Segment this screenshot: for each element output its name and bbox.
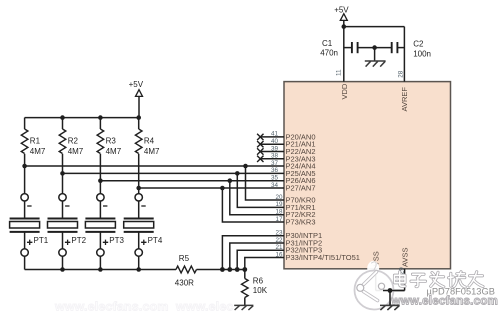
wire +5V left riser: [138, 96, 140, 117]
wire top horizontal to AVREF branch: [344, 26, 405, 28]
svg-text:22: 22: [275, 237, 283, 244]
wire R4 bottom to PT4: [138, 154, 140, 194]
svg-text:40: 40: [271, 138, 279, 145]
pin stub 38 no-connect: [260, 158, 284, 160]
resistor R1: [21, 129, 28, 154]
wire R1 top stub: [24, 118, 26, 129]
svg-text:35: 35: [271, 175, 279, 182]
junction rail PT2: [60, 267, 65, 272]
wire bottom rail left of R5: [25, 269, 176, 271]
junction branch A: [243, 164, 248, 169]
svg-text:P33/INTP4/TI51/TO51: P33/INTP4/TI51/TO51: [286, 253, 360, 262]
svg-text:4M7: 4M7: [106, 147, 122, 156]
wire C1 to C2 through mid node: [358, 47, 392, 49]
svg-text:R3: R3: [106, 137, 117, 146]
svg-text:16: 16: [275, 251, 283, 258]
pin stub 39 no-connect: [260, 151, 284, 153]
svg-text:4M7: 4M7: [68, 147, 84, 156]
IC U1 uPD78F0513GB body: [284, 82, 451, 269]
wire R3 top stub: [99, 118, 101, 129]
resistor R4: [135, 129, 142, 154]
resistor R5: [176, 266, 196, 273]
svg-text:23: 23: [275, 230, 283, 237]
svg-text:www.elecfans.com www.elec: www.elecfans.com www.elec: [54, 300, 234, 314]
junction rail PT3: [98, 267, 103, 272]
junction VSS-AVSS: [388, 288, 393, 293]
svg-text:AVREF: AVREF: [400, 87, 409, 112]
no-connect X pin39: [257, 148, 263, 154]
wire PT4 to bottom rail: [138, 256, 140, 270]
wire VSS pin down: [375, 269, 377, 291]
junction node C: [98, 178, 103, 183]
svg-text:39: 39: [271, 145, 279, 152]
piezo transducer PT3: [85, 194, 115, 257]
wire join to bottom ground redraw: [383, 290, 405, 292]
junction branch C: [228, 178, 233, 183]
junction +5V rail R3: [98, 115, 103, 120]
svg-text:18: 18: [275, 209, 283, 216]
ground under R6: [234, 305, 253, 310]
wire C2 to AVREF branch: [398, 47, 405, 49]
svg-text:100n: 100n: [413, 49, 431, 58]
junction rail PT4: [136, 267, 141, 272]
junction rail INTP1: [220, 267, 225, 272]
wire bottom rail right of R5: [197, 269, 245, 271]
piezo transducer PT2: [48, 194, 78, 257]
pin stub 40 no-connect: [260, 143, 284, 145]
wire AVREF vertical pin28: [403, 27, 405, 82]
wire rail to pin23 P30/INTP1: [222, 236, 284, 270]
wire node A to pin37 P24/AN4: [25, 165, 284, 167]
wire +5V right riser to VDD pin11: [343, 21, 345, 82]
wire R2 bottom to PT2: [62, 154, 64, 194]
no-connect X pin38: [257, 156, 263, 162]
svg-text:38: 38: [271, 153, 279, 160]
svg-text:28: 28: [398, 70, 405, 78]
junction rail INTP2: [227, 267, 232, 272]
no-connect X pin40: [257, 141, 263, 147]
svg-text:4M7: 4M7: [144, 147, 160, 156]
wire mid node to ground: [374, 48, 376, 61]
svg-text:+5V: +5V: [129, 80, 144, 89]
svg-text:VDD: VDD: [340, 83, 349, 99]
resistor R2: [59, 129, 66, 154]
svg-text:PT3: PT3: [109, 236, 124, 245]
resistor R6: [242, 279, 249, 298]
svg-text:430R: 430R: [175, 278, 194, 287]
svg-text:PT2: PT2: [71, 236, 86, 245]
svg-text:AVSS: AVSS: [401, 248, 410, 267]
wire branch D to pin17 P73/KR3: [222, 188, 284, 222]
svg-text:R5: R5: [179, 254, 190, 263]
svg-text:17: 17: [275, 216, 283, 223]
svg-text:41: 41: [271, 131, 279, 138]
wire node D to pin34 P27/AN7: [139, 187, 284, 189]
svg-text:+5V: +5V: [334, 5, 349, 14]
wire VDD to C1: [344, 47, 352, 49]
piezo transducer PT1: [10, 194, 40, 257]
wire PT1 to bottom rail: [24, 256, 26, 270]
capacitor C2: [392, 42, 398, 53]
junction branch D: [220, 186, 225, 191]
piezo transducer PT4: [124, 194, 154, 257]
ground under VSS/AVSS: [380, 305, 400, 310]
capacitor C1: [352, 42, 358, 53]
wire rail to pin16 P33/INTP4: [245, 258, 284, 270]
junction +5V rail R4: [136, 115, 141, 120]
wire +5V top rail: [25, 117, 139, 119]
wire R4 top stub: [138, 118, 140, 129]
wire AVSS pin down: [404, 269, 406, 291]
svg-text:www.elecfans.com: www.elecfans.com: [391, 295, 499, 308]
wire R1 bottom to PT1: [24, 154, 26, 194]
svg-text:36: 36: [271, 167, 279, 174]
junction branch B: [235, 171, 240, 176]
svg-text:10K: 10K: [253, 286, 268, 295]
ground under VSS/AVSS redraw: [380, 305, 400, 310]
junction node B: [60, 171, 65, 176]
wire R6 top: [244, 270, 246, 279]
svg-text:R6: R6: [253, 277, 264, 286]
junction node D: [136, 186, 141, 191]
wire R3 bottom to PT3: [99, 154, 101, 194]
wire PT2 to bottom rail: [62, 256, 64, 270]
junction +5V right: [342, 24, 347, 29]
power +5V left symbol: [136, 90, 143, 97]
no-connect X pin41: [257, 134, 263, 140]
svg-text:11: 11: [336, 69, 343, 76]
svg-text:R2: R2: [68, 137, 79, 146]
junction VSS-AVSS redraw: [388, 288, 393, 293]
wire branch C to pin18 P72/KR2: [230, 181, 284, 215]
svg-text:470n: 470n: [320, 49, 338, 58]
svg-text:PT4: PT4: [148, 236, 163, 245]
svg-text:21: 21: [275, 244, 283, 251]
svg-text:37: 37: [271, 160, 279, 167]
wire R2 top stub: [62, 118, 64, 129]
power +5V right symbol: [340, 14, 347, 21]
svg-text:34: 34: [271, 182, 279, 189]
junction +5V rail R2: [60, 115, 65, 120]
svg-text:20: 20: [275, 194, 283, 201]
wire join to bottom ground: [389, 291, 391, 306]
svg-text:R1: R1: [30, 137, 41, 146]
wire VSS-AVSS join: [376, 290, 405, 292]
junction C1-C2 mid node: [372, 45, 377, 50]
svg-text:19: 19: [275, 201, 283, 208]
wire node B to pin36 P25/AN5: [63, 172, 285, 174]
junction node A: [22, 164, 27, 169]
svg-text:C1: C1: [322, 39, 333, 48]
svg-text:P73/KR3: P73/KR3: [286, 218, 316, 227]
wire branch B to pin19 P71/KR1: [237, 173, 284, 207]
junction rail INTP3: [235, 267, 240, 272]
junction rail R6: [242, 267, 247, 272]
svg-text:P27/AN7: P27/AN7: [286, 184, 316, 193]
pin stub 41 no-connect: [260, 136, 284, 138]
svg-text:4M7: 4M7: [30, 147, 46, 156]
wire node C to pin35 P26/AN6: [100, 180, 284, 182]
svg-text:PT1: PT1: [34, 236, 49, 245]
ground under C1/C2: [365, 61, 386, 67]
wire rail to pin22 P31/INTP2: [230, 243, 284, 270]
resistor R3: [97, 129, 104, 154]
svg-text:R4: R4: [144, 137, 155, 146]
svg-text:C2: C2: [413, 40, 424, 49]
wire rail to pin21 P32/INTP3: [237, 250, 284, 269]
wire R6 bottom to ground: [244, 298, 246, 306]
wire PT3 to bottom rail: [99, 256, 101, 270]
wire branch A to pin20 P70/KR0: [246, 166, 285, 200]
